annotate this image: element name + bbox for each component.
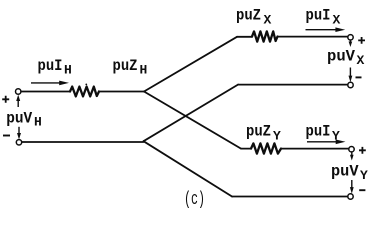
scan dot above resistor puZ_H xyxy=(85,84,87,86)
svg-text:puV: puV xyxy=(6,109,32,127)
svg-text:H: H xyxy=(140,63,148,78)
svg-text:Y: Y xyxy=(273,129,281,144)
wire H bottom rail xyxy=(22,141,144,143)
plus sign at H+ xyxy=(2,96,9,103)
wire diagonal H-top to Y-top xyxy=(144,92,241,149)
wire X top rail right segment xyxy=(278,36,349,38)
plus sign at Y+ xyxy=(359,147,366,154)
wire Y top rail left segment xyxy=(241,148,251,150)
wire Y top rail right segment xyxy=(281,148,349,150)
wire diagonal H-top to X-top xyxy=(144,37,237,92)
minus sign at H- xyxy=(3,135,10,137)
current arrow puI_Y xyxy=(307,140,346,145)
terminal H- xyxy=(16,140,21,145)
svg-text:Y: Y xyxy=(332,129,340,144)
wire X bottom rail xyxy=(238,84,348,86)
voltage stub arrow below Y+ terminal xyxy=(350,152,354,160)
svg-text:puI: puI xyxy=(38,57,63,75)
terminal Y- xyxy=(348,194,353,199)
terminal H+ xyxy=(16,89,21,94)
minus sign at Y- xyxy=(359,189,365,191)
current arrow puI_X xyxy=(306,27,346,32)
label puI_X xyxy=(306,7,341,28)
svg-text:H: H xyxy=(64,63,72,78)
label puZ_X xyxy=(236,7,272,28)
svg-text:H: H xyxy=(34,115,42,130)
voltage stub arrow at H+ (points up to terminal) xyxy=(16,95,20,107)
voltage stub arrow below X+ terminal xyxy=(349,40,353,47)
svg-text:(c): (c) xyxy=(184,190,205,210)
voltage stub arrow at X- (points down to terminal) xyxy=(349,68,353,83)
voltage stub arrow at Y- (points down to terminal) xyxy=(350,180,354,194)
label puV_H xyxy=(6,109,42,129)
svg-text:puI: puI xyxy=(306,123,331,141)
wire H top rail left segment xyxy=(21,91,70,93)
svg-text:X: X xyxy=(333,13,341,28)
wire diagonal H-bottom to Y-bottom xyxy=(144,141,233,196)
svg-text:X: X xyxy=(264,13,272,28)
voltage stub arrow at H- (points down to terminal) xyxy=(17,127,21,140)
plus sign at X+ xyxy=(358,37,365,44)
svg-text:puV: puV xyxy=(331,163,359,181)
terminal X- xyxy=(348,82,353,87)
svg-text:puV: puV xyxy=(327,48,355,66)
svg-text:Y: Y xyxy=(360,168,368,183)
wire H top rail right segment xyxy=(99,91,144,93)
svg-text:puZ: puZ xyxy=(246,123,271,141)
wire X top rail left segment xyxy=(237,36,252,38)
label puV_X xyxy=(327,48,365,68)
svg-text:puI: puI xyxy=(306,7,331,25)
label puZ_H xyxy=(113,57,148,78)
label puV_Y xyxy=(331,163,368,183)
svg-text:puZ: puZ xyxy=(113,57,138,75)
label puZ_Y xyxy=(246,123,281,144)
minus sign at X- xyxy=(356,76,362,78)
label puI_Y xyxy=(306,123,341,144)
current arrow puI_H xyxy=(31,81,69,86)
resistor puZ_H xyxy=(70,87,99,97)
wire diagonal H-bottom to X-bottom xyxy=(144,85,239,142)
terminal Y+ xyxy=(349,147,354,152)
terminal X+ xyxy=(348,35,353,40)
resistor puZ_X xyxy=(252,31,278,41)
label puI_H xyxy=(38,57,72,78)
svg-text:X: X xyxy=(357,53,365,68)
wire Y bottom rail xyxy=(232,196,348,198)
svg-text:puZ: puZ xyxy=(236,7,261,25)
resistor puZ_Y xyxy=(251,143,281,153)
